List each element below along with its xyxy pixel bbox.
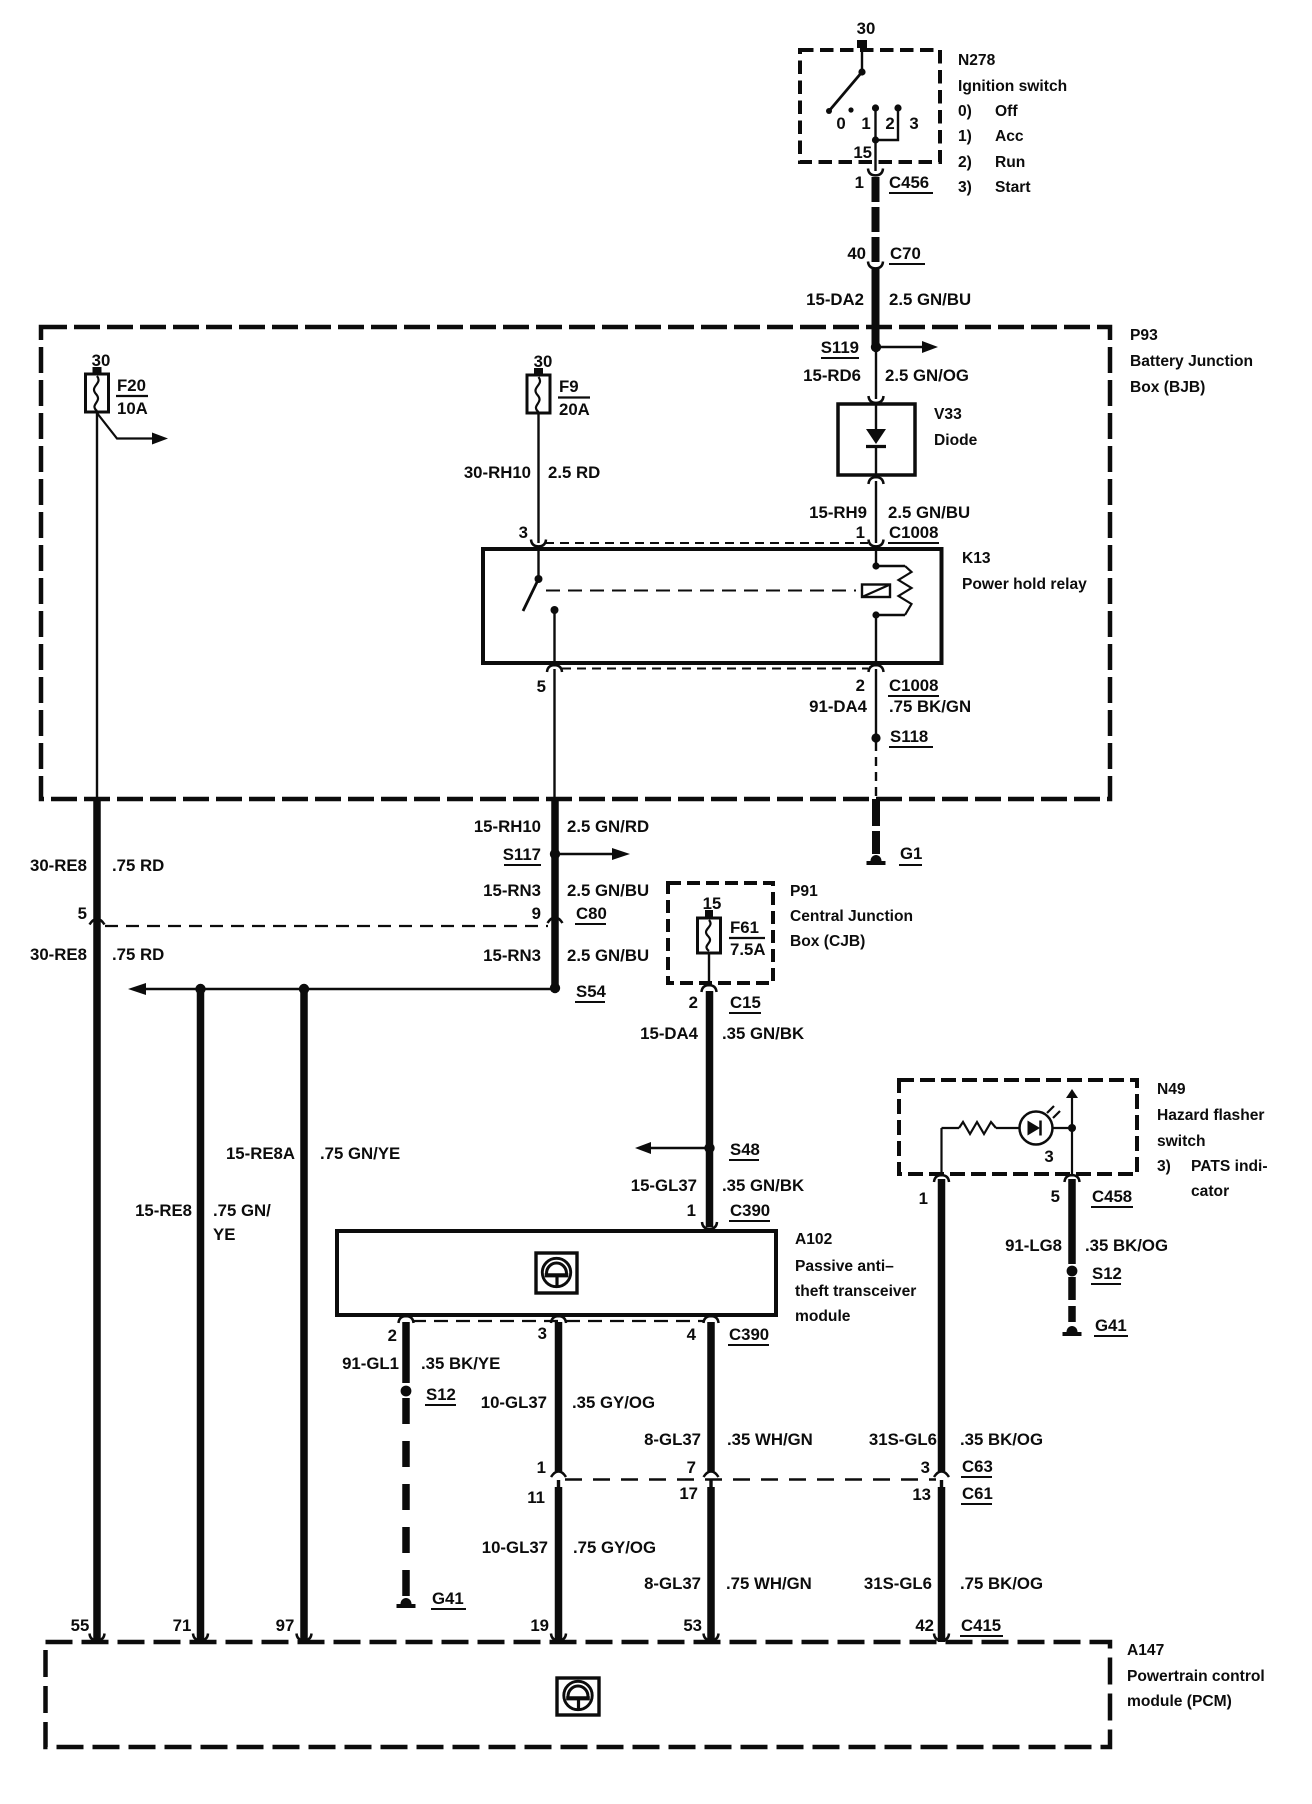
svg-text:1: 1 (855, 173, 864, 192)
svg-text:91-DA4: 91-DA4 (809, 697, 867, 716)
svg-text:2.5 GN/BU: 2.5 GN/BU (567, 946, 649, 965)
svg-text:1: 1 (537, 1458, 546, 1477)
svg-text:91-GL1: 91-GL1 (342, 1354, 399, 1373)
svg-text:.35 BK/OG: .35 BK/OG (1085, 1236, 1168, 1255)
svg-text:.75 GN/: .75 GN/ (213, 1201, 271, 1220)
svg-text:S54: S54 (576, 982, 607, 1001)
svg-text:15: 15 (703, 894, 722, 913)
svg-text:15-DA4: 15-DA4 (640, 1024, 698, 1043)
svg-text:.75 RD: .75 RD (112, 945, 164, 964)
svg-text:30: 30 (857, 19, 876, 38)
svg-text:Power hold relay: Power hold relay (962, 576, 1087, 593)
svg-text:Acc: Acc (995, 128, 1024, 145)
svg-text:.35 GY/OG: .35 GY/OG (572, 1393, 655, 1412)
svg-text:40: 40 (847, 244, 866, 263)
svg-text:15: 15 (853, 143, 872, 162)
svg-text:2.5 RD: 2.5 RD (548, 463, 600, 482)
svg-text:5: 5 (78, 904, 87, 923)
svg-text:Battery Junction: Battery Junction (1130, 353, 1253, 370)
svg-text:15-RN3: 15-RN3 (483, 946, 541, 965)
svg-text:Hazard flasher: Hazard flasher (1157, 1107, 1264, 1124)
svg-text:3): 3) (958, 179, 972, 196)
svg-text:F9: F9 (559, 377, 579, 396)
svg-text:1: 1 (856, 523, 865, 542)
svg-text:S12: S12 (1092, 1264, 1122, 1283)
svg-text:F20: F20 (117, 376, 146, 395)
svg-text:1): 1) (958, 128, 972, 145)
svg-text:C456: C456 (889, 173, 929, 192)
svg-text:15-DA2: 15-DA2 (806, 290, 864, 309)
svg-text:C390: C390 (729, 1325, 769, 1344)
svg-text:.75 RD: .75 RD (112, 856, 164, 875)
svg-text:Diode: Diode (934, 432, 978, 449)
svg-text:Central Junction: Central Junction (790, 908, 913, 925)
svg-text:15-RE8: 15-RE8 (135, 1201, 192, 1220)
svg-text:C1008: C1008 (889, 523, 938, 542)
svg-text:N49: N49 (1157, 1081, 1186, 1098)
svg-text:C70: C70 (890, 244, 921, 263)
svg-text:F61: F61 (730, 918, 759, 937)
svg-text:2.5 GN/BU: 2.5 GN/BU (888, 503, 970, 522)
svg-text:cator: cator (1191, 1183, 1229, 1200)
svg-text:A102: A102 (795, 1231, 833, 1248)
svg-text:theft transceiver: theft transceiver (795, 1283, 916, 1300)
svg-text:17: 17 (679, 1484, 698, 1503)
svg-text:30-RE8: 30-RE8 (30, 945, 87, 964)
svg-text:3: 3 (519, 523, 528, 542)
svg-text:42: 42 (915, 1616, 934, 1635)
svg-text:20A: 20A (559, 400, 590, 419)
svg-text:C390: C390 (730, 1201, 770, 1220)
svg-text:5: 5 (1051, 1187, 1060, 1206)
svg-text:30-RH10: 30-RH10 (464, 463, 531, 482)
svg-text:10-GL37: 10-GL37 (481, 1393, 547, 1412)
svg-text:2): 2) (958, 154, 972, 171)
svg-text:13: 13 (912, 1485, 931, 1504)
svg-text:3: 3 (909, 114, 918, 133)
svg-text:30: 30 (92, 351, 111, 370)
svg-text:Run: Run (995, 154, 1025, 171)
svg-text:31S-GL6: 31S-GL6 (864, 1574, 932, 1593)
svg-text:2.5 GN/OG: 2.5 GN/OG (885, 366, 969, 385)
svg-text:15-RN3: 15-RN3 (483, 881, 541, 900)
svg-text:2.5 GN/RD: 2.5 GN/RD (567, 817, 649, 836)
svg-text:7.5A: 7.5A (730, 940, 765, 959)
svg-text:S117: S117 (503, 845, 541, 864)
svg-text:A147: A147 (1127, 1642, 1164, 1659)
svg-text:10A: 10A (117, 399, 148, 418)
svg-text:3: 3 (1044, 1147, 1053, 1166)
svg-text:10-GL37: 10-GL37 (482, 1538, 548, 1557)
svg-text:2.5 GN/BU: 2.5 GN/BU (567, 881, 649, 900)
svg-text:11: 11 (527, 1488, 545, 1507)
svg-text:2: 2 (388, 1326, 397, 1345)
svg-text:3: 3 (921, 1458, 930, 1477)
svg-text:Box (CJB): Box (CJB) (790, 933, 865, 950)
svg-text:Box (BJB): Box (BJB) (1130, 379, 1205, 396)
svg-text:8-GL37: 8-GL37 (644, 1574, 701, 1593)
svg-text:S118: S118 (890, 727, 928, 746)
svg-text:C1008: C1008 (889, 676, 938, 695)
svg-text:53: 53 (683, 1616, 702, 1635)
svg-text:N278: N278 (958, 52, 996, 69)
svg-text:2: 2 (885, 114, 894, 133)
svg-text:55: 55 (71, 1616, 90, 1635)
svg-text:1: 1 (687, 1201, 696, 1220)
svg-text:C15: C15 (730, 993, 761, 1012)
svg-text:30-RE8: 30-RE8 (30, 856, 87, 875)
svg-text:31S-GL6: 31S-GL6 (869, 1430, 937, 1449)
svg-text:S119: S119 (821, 338, 859, 357)
svg-text:P91: P91 (790, 883, 818, 900)
svg-text:2: 2 (689, 993, 698, 1012)
svg-text:switch: switch (1157, 1133, 1206, 1150)
svg-text:Ignition switch: Ignition switch (958, 78, 1067, 95)
svg-text:Passive anti–: Passive anti– (795, 1258, 894, 1275)
svg-text:9: 9 (532, 904, 541, 923)
svg-text:15-RD6: 15-RD6 (803, 366, 861, 385)
svg-text:1: 1 (919, 1189, 928, 1208)
svg-text:G41: G41 (432, 1589, 464, 1608)
svg-text:.35 BK/YE: .35 BK/YE (421, 1354, 500, 1373)
svg-text:19: 19 (530, 1616, 549, 1635)
svg-text:2.5 GN/BU: 2.5 GN/BU (889, 290, 971, 309)
svg-text:97: 97 (276, 1616, 295, 1635)
svg-text:0: 0 (836, 114, 845, 133)
svg-text:.35 WH/GN: .35 WH/GN (727, 1430, 813, 1449)
svg-text:15-GL37: 15-GL37 (631, 1176, 697, 1195)
svg-text:15-RE8A: 15-RE8A (226, 1144, 295, 1163)
svg-text:S12: S12 (426, 1385, 456, 1404)
svg-text:V33: V33 (934, 406, 962, 423)
svg-text:S48: S48 (730, 1140, 760, 1159)
svg-text:8-GL37: 8-GL37 (644, 1430, 701, 1449)
svg-text:71: 71 (173, 1616, 192, 1635)
svg-text:Powertrain control: Powertrain control (1127, 1668, 1265, 1685)
svg-text:C458: C458 (1092, 1187, 1132, 1206)
svg-text:5: 5 (537, 677, 546, 696)
svg-text:15-RH9: 15-RH9 (809, 503, 867, 522)
svg-text:.35 GN/BK: .35 GN/BK (722, 1024, 804, 1043)
svg-text:.75 BK/GN: .75 BK/GN (889, 697, 971, 716)
svg-text:.75 BK/OG: .75 BK/OG (960, 1574, 1043, 1593)
svg-text:.35 BK/OG: .35 BK/OG (960, 1430, 1043, 1449)
svg-text:K13: K13 (962, 550, 991, 567)
svg-text:.35 GN/BK: .35 GN/BK (722, 1176, 804, 1195)
svg-text:YE: YE (213, 1225, 235, 1244)
svg-text:C80: C80 (576, 904, 607, 923)
svg-text:Off: Off (995, 103, 1018, 120)
svg-text:C415: C415 (961, 1616, 1001, 1635)
svg-text:C61: C61 (962, 1484, 993, 1503)
svg-text:15-RH10: 15-RH10 (474, 817, 541, 836)
svg-text:91-LG8: 91-LG8 (1005, 1236, 1062, 1255)
svg-text:2: 2 (856, 676, 865, 695)
svg-text:.75 GN/YE: .75 GN/YE (320, 1144, 400, 1163)
svg-text:1: 1 (861, 114, 870, 133)
svg-text:PATS indi-: PATS indi- (1191, 1158, 1268, 1175)
svg-text:.75 WH/GN: .75 WH/GN (726, 1574, 812, 1593)
svg-text:30: 30 (534, 352, 553, 371)
svg-text:G1: G1 (900, 844, 922, 863)
svg-text:4: 4 (687, 1325, 697, 1344)
svg-text:module: module (795, 1308, 851, 1325)
svg-text:.75 GY/OG: .75 GY/OG (573, 1538, 656, 1557)
svg-text:3): 3) (1157, 1158, 1171, 1175)
svg-text:P93: P93 (1130, 327, 1158, 344)
svg-text:7: 7 (687, 1458, 696, 1477)
svg-text:3: 3 (538, 1324, 547, 1343)
svg-text:C63: C63 (962, 1457, 993, 1476)
svg-text:0): 0) (958, 103, 972, 120)
svg-text:G41: G41 (1095, 1316, 1127, 1335)
svg-text:module (PCM): module (PCM) (1127, 1693, 1232, 1710)
svg-text:Start: Start (995, 179, 1031, 196)
